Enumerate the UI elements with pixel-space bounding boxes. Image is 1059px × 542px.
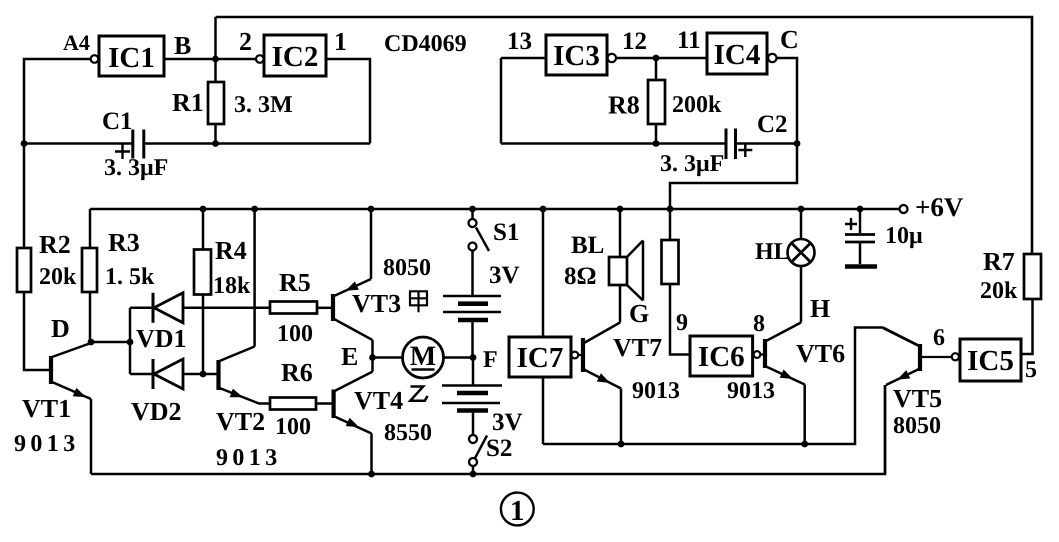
svg-text:20k: 20k: [980, 278, 1018, 304]
svg-text:3. 3μF: 3. 3μF: [104, 155, 168, 181]
svg-text:3. 3μF: 3. 3μF: [660, 151, 724, 177]
svg-text:S1: S1: [493, 219, 519, 246]
svg-text:VT1: VT1: [22, 394, 71, 423]
svg-text:VT2: VT2: [216, 407, 265, 436]
svg-text:11: 11: [677, 27, 701, 54]
svg-text:VT3: VT3: [352, 289, 401, 318]
svg-text:3V: 3V: [489, 262, 520, 289]
svg-text:+6V: +6V: [915, 192, 964, 222]
svg-text:B: B: [174, 31, 191, 60]
svg-text:9013: 9013: [14, 431, 80, 457]
svg-text:R8: R8: [608, 91, 640, 120]
svg-text:5: 5: [1025, 357, 1037, 383]
svg-text:8050: 8050: [383, 255, 431, 281]
svg-text:VD2: VD2: [131, 397, 182, 426]
svg-text:1: 1: [510, 495, 525, 527]
svg-text:9013: 9013: [216, 445, 282, 471]
svg-text:IC2: IC2: [272, 41, 319, 73]
svg-text:R1: R1: [172, 88, 204, 117]
svg-text:3. 3M: 3. 3M: [234, 92, 293, 118]
svg-text:9013: 9013: [727, 378, 775, 404]
svg-text:3V: 3V: [492, 409, 523, 436]
svg-text:R5: R5: [279, 268, 311, 297]
svg-text:IC3: IC3: [553, 40, 600, 72]
svg-text:IC7: IC7: [517, 342, 564, 374]
svg-text:M: M: [410, 341, 436, 372]
svg-text:R6: R6: [281, 358, 313, 387]
svg-text:1: 1: [334, 27, 347, 56]
svg-text:H: H: [810, 294, 830, 323]
svg-text:F: F: [483, 347, 498, 373]
svg-text:A4: A4: [63, 30, 90, 55]
svg-text:C1: C1: [102, 108, 133, 135]
svg-text:VT4: VT4: [354, 386, 403, 415]
svg-text:8: 8: [753, 311, 765, 337]
svg-text:VT7: VT7: [613, 333, 662, 362]
svg-text:20k: 20k: [39, 264, 77, 290]
svg-text:IC6: IC6: [698, 341, 745, 373]
svg-text:HL: HL: [755, 239, 790, 265]
svg-text:6: 6: [933, 325, 945, 351]
svg-text:G: G: [629, 299, 649, 328]
svg-text:18k: 18k: [213, 273, 251, 299]
svg-text:13: 13: [507, 28, 532, 55]
svg-text:R2: R2: [39, 230, 71, 259]
svg-text:9: 9: [676, 310, 688, 336]
svg-text:D: D: [51, 314, 70, 343]
svg-text:BL: BL: [571, 232, 604, 259]
svg-text:R7: R7: [983, 247, 1015, 276]
svg-text:10μ: 10μ: [885, 223, 923, 249]
svg-text:12: 12: [622, 28, 647, 55]
svg-text:IC1: IC1: [108, 42, 155, 74]
svg-text:C2: C2: [757, 111, 788, 138]
svg-text:8050: 8050: [893, 413, 941, 439]
svg-text:8Ω: 8Ω: [564, 263, 597, 290]
svg-text:100: 100: [277, 321, 313, 347]
svg-text:R3: R3: [108, 228, 140, 257]
svg-text:S2: S2: [486, 435, 512, 462]
svg-text:IC5: IC5: [967, 345, 1014, 377]
svg-text:1. 5k: 1. 5k: [105, 264, 155, 290]
svg-text:CD4069: CD4069: [384, 31, 467, 57]
svg-text:VT6: VT6: [796, 339, 845, 368]
svg-text:E: E: [341, 342, 358, 371]
svg-text:8550: 8550: [384, 420, 432, 446]
svg-text:IC4: IC4: [714, 39, 761, 71]
svg-text:9013: 9013: [632, 378, 680, 404]
svg-text:R4: R4: [215, 236, 247, 265]
svg-text:200k: 200k: [672, 92, 722, 118]
svg-text:VT5: VT5: [893, 384, 942, 413]
svg-text:C: C: [780, 25, 799, 54]
svg-text:VD1: VD1: [136, 324, 187, 353]
svg-text:2: 2: [239, 27, 252, 56]
svg-text:100: 100: [275, 414, 311, 440]
